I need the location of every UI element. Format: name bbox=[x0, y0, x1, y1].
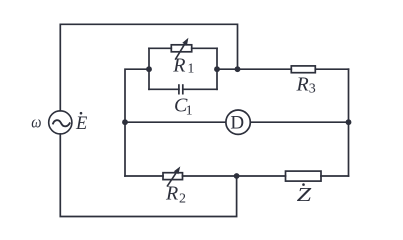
wire: Z to right vertical bbox=[321, 175, 349, 177]
wire: node B to Z bbox=[237, 175, 286, 177]
wire: right vertical bbox=[348, 69, 350, 176]
wire: detector left bbox=[125, 121, 226, 123]
resistor R1 (variable) body bbox=[171, 45, 191, 52]
wire: parallel combo left vertical bbox=[148, 48, 150, 89]
svg-text:ω: ω bbox=[31, 113, 41, 132]
wire: detector right bbox=[250, 121, 348, 123]
wire: R1 branch left lead bbox=[149, 47, 171, 49]
node B: bottom rail junction bbox=[234, 173, 240, 179]
impedance Z body bbox=[286, 171, 322, 181]
wire: source top to top rail to node T bbox=[60, 24, 237, 111]
svg-text:2: 2 bbox=[179, 192, 186, 207]
svg-text:D: D bbox=[230, 113, 244, 134]
wire: parallel combo right vertical bbox=[216, 48, 218, 89]
svg-text:Z: Z bbox=[297, 184, 313, 206]
AC source E bbox=[49, 111, 72, 134]
svg-text:1: 1 bbox=[187, 62, 194, 77]
svg-text:3: 3 bbox=[309, 82, 316, 97]
wire: R3 to right vertical bbox=[315, 68, 348, 70]
wire: C1 branch left lead bbox=[149, 88, 179, 90]
variable-resistor arrow on R1 bbox=[175, 38, 188, 60]
svg-text:R: R bbox=[296, 73, 309, 95]
detector D circle bbox=[226, 110, 250, 134]
wire: bottom branch left to R2 bbox=[125, 175, 163, 177]
label E-dot bbox=[75, 112, 87, 134]
label Z-dot bbox=[297, 183, 313, 206]
wire: left bridge vertical bbox=[125, 69, 149, 176]
wire: C1 branch right lead bbox=[183, 88, 217, 90]
svg-text:R: R bbox=[172, 54, 185, 76]
node T: top rail junction bbox=[235, 66, 241, 72]
resistor R2 (variable) body bbox=[163, 173, 183, 180]
label R2 bbox=[165, 183, 186, 207]
label R1 bbox=[172, 54, 194, 76]
node: R1C1 right junction bbox=[214, 66, 220, 72]
svg-text:E: E bbox=[75, 114, 87, 134]
svg-text:1: 1 bbox=[186, 104, 193, 119]
wire: node R1C1-right to R3 (through node T) bbox=[217, 68, 291, 70]
node: detector left junction bbox=[122, 119, 128, 125]
label C1 bbox=[174, 95, 193, 119]
svg-text:R: R bbox=[165, 183, 178, 205]
variable-resistor arrow on R2 bbox=[167, 166, 180, 186]
node: detector right junction bbox=[346, 119, 352, 125]
capacitor C1 plates bbox=[179, 84, 183, 94]
label R3 bbox=[296, 73, 316, 96]
wire: source bottom to bottom rail up to node B bbox=[60, 134, 236, 217]
node: R1C1 left junction bbox=[146, 66, 152, 72]
wire: R1 branch right lead bbox=[192, 47, 217, 49]
resistor R3 body bbox=[291, 66, 315, 73]
wire: R2 to node B bbox=[183, 175, 237, 177]
